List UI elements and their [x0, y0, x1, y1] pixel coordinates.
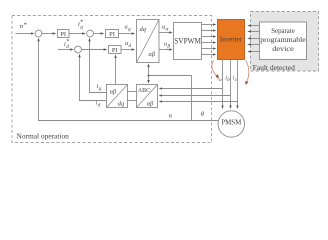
svg-text:*: *: [80, 20, 83, 26]
svg-text:programmable: programmable: [260, 36, 306, 44]
svg-text:*: *: [24, 21, 27, 28]
svg-text:α: α: [166, 27, 169, 33]
svg-text:dq: dq: [140, 26, 147, 33]
svg-text:d: d: [129, 43, 132, 49]
svg-text:Normal operation: Normal operation: [17, 132, 70, 141]
svg-text:αβ: αβ: [149, 51, 156, 58]
svg-text:q: q: [128, 26, 131, 32]
svg-text:PI: PI: [109, 31, 115, 38]
svg-text:n: n: [169, 112, 173, 119]
svg-text:θ: θ: [201, 111, 205, 118]
svg-text:PI: PI: [60, 31, 66, 38]
svg-text:PI: PI: [112, 47, 118, 54]
svg-text:a: a: [219, 78, 222, 83]
svg-text:b: b: [227, 78, 230, 83]
svg-text:*: *: [66, 39, 69, 45]
svg-text:ABC: ABC: [138, 88, 150, 94]
svg-text:αβ: αβ: [110, 89, 117, 96]
svg-text:Fault detected: Fault detected: [253, 63, 296, 72]
svg-text:Inverter: Inverter: [220, 35, 243, 43]
svg-text:SVPWM: SVPWM: [174, 36, 201, 45]
svg-text:d: d: [98, 104, 101, 109]
svg-text:q: q: [99, 87, 102, 92]
svg-text:Separate: Separate: [271, 27, 295, 35]
svg-text:dq: dq: [118, 100, 124, 107]
svg-text:αβ: αβ: [147, 100, 154, 107]
svg-text:β: β: [167, 44, 171, 50]
svg-text:device: device: [272, 45, 294, 53]
svg-text:PMSM: PMSM: [221, 118, 242, 126]
